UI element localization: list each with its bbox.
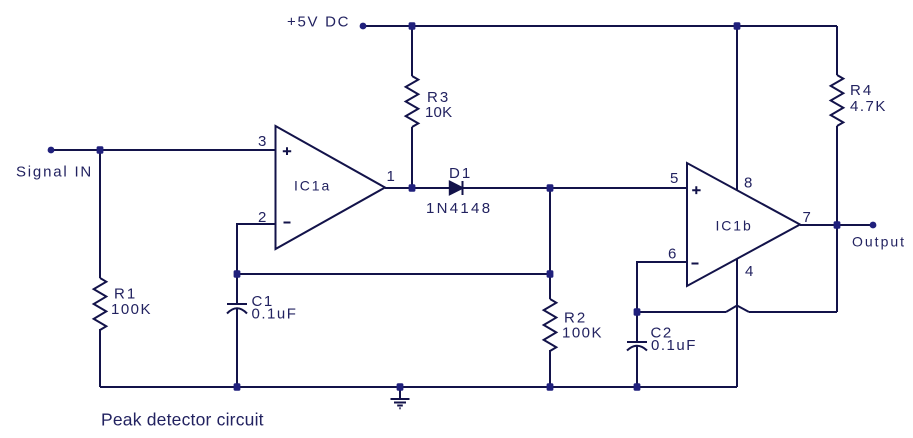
ground <box>399 387 401 399</box>
capacitor C2 <box>627 341 647 343</box>
svg-text:100K: 100K <box>562 325 603 342</box>
svg-text:Signal IN: Signal IN <box>16 164 93 181</box>
minus sign IC1b <box>692 263 699 265</box>
minus sign IC1a <box>284 222 291 224</box>
wire IC1a output to diode <box>385 187 449 189</box>
node junction R3 top <box>409 22 416 29</box>
wire R4 bottom down to feedback row <box>836 126 838 312</box>
plus sign IC1b <box>692 186 700 194</box>
wire pin8 power from rail <box>736 26 738 191</box>
wire C1 bottom lead <box>236 309 238 388</box>
wire pin4 down to ground rail <box>736 259 738 388</box>
node junction C1 ground <box>234 383 241 390</box>
op-amp U1 IC1a <box>276 126 386 249</box>
wire signal input row to pin3 <box>51 149 276 151</box>
node junction R1 top <box>97 146 104 153</box>
diode D1 <box>450 182 463 195</box>
svg-text:R4: R4 <box>850 82 873 99</box>
wire IC1b output <box>800 224 873 226</box>
node terminal signal in <box>48 147 55 154</box>
node terminal +5V <box>360 23 367 30</box>
svg-text:IC1b: IC1b <box>716 218 753 234</box>
svg-text:4: 4 <box>745 263 755 280</box>
node junction ground symbol <box>397 383 404 390</box>
wire C2 bottom lead <box>636 346 638 387</box>
wire pin2 inverting input <box>237 224 276 274</box>
node junction pin8 rail <box>734 22 741 29</box>
wire R2 top drop <box>549 188 551 299</box>
svg-text:+5V DC: +5V DC <box>287 14 350 31</box>
resistor R1 <box>94 278 107 330</box>
wire diode to pin5 <box>462 187 687 189</box>
node terminal output <box>870 222 877 229</box>
svg-text:Peak detector circuit: Peak detector circuit <box>101 410 264 430</box>
node junction feedback C1 <box>234 270 241 277</box>
op-amp U2 IC1b <box>687 163 800 286</box>
svg-text:1: 1 <box>387 168 397 185</box>
svg-text:7: 7 <box>803 209 813 226</box>
svg-text:8: 8 <box>744 175 754 192</box>
svg-text:Output: Output <box>852 234 906 250</box>
capacitor C1 <box>227 303 247 305</box>
wire R3 drop from rail <box>411 26 413 76</box>
resistor R3 <box>406 76 419 127</box>
svg-text:2: 2 <box>258 209 268 226</box>
wire feedback bottom right segment <box>749 311 837 313</box>
svg-text:0.1uF: 0.1uF <box>651 337 697 354</box>
node junction C2 ground <box>634 383 641 390</box>
wire pin6 inverting input <box>637 262 687 312</box>
node junction R3 bottom output IC1a <box>409 184 416 191</box>
wire R3 bottom to node <box>411 127 413 188</box>
wire R2 bottom to ground rail <box>549 350 551 387</box>
svg-text:R1: R1 <box>114 286 137 303</box>
wire feedback bottom left segment <box>637 311 726 313</box>
svg-text:10K: 10K <box>425 104 452 121</box>
resistor R2 <box>544 299 557 351</box>
plus sign IC1a <box>283 147 291 155</box>
node junction feedback R2 <box>547 270 554 277</box>
wire top +5V rail <box>363 25 837 27</box>
wire feedback row to R2 node <box>237 273 550 275</box>
svg-text:3: 3 <box>258 133 268 150</box>
node junction R2 ground <box>547 383 554 390</box>
svg-text:1N4148: 1N4148 <box>426 200 492 217</box>
svg-text:D1: D1 <box>449 165 472 182</box>
node junction diode cathode R2 <box>547 184 554 191</box>
svg-text:IC1a: IC1a <box>294 178 331 194</box>
svg-text:4.7K: 4.7K <box>850 98 887 115</box>
svg-text:100K: 100K <box>111 301 152 318</box>
wire C1 top lead <box>236 274 238 304</box>
svg-text:0.1uF: 0.1uF <box>252 306 298 323</box>
wire R1 bottom to ground rail <box>99 329 101 387</box>
wire R4 drop from rail <box>836 26 838 75</box>
wire R1 top drop <box>99 150 101 278</box>
wire hop over pin4 line <box>726 306 749 313</box>
wire ground rail <box>100 386 737 388</box>
node junction pin6 C2 <box>634 308 641 315</box>
svg-text:5: 5 <box>670 170 680 187</box>
svg-text:6: 6 <box>668 246 678 263</box>
resistor R4 <box>831 75 844 126</box>
wire C2 top lead <box>636 312 638 342</box>
node junction output R4 <box>834 221 841 228</box>
